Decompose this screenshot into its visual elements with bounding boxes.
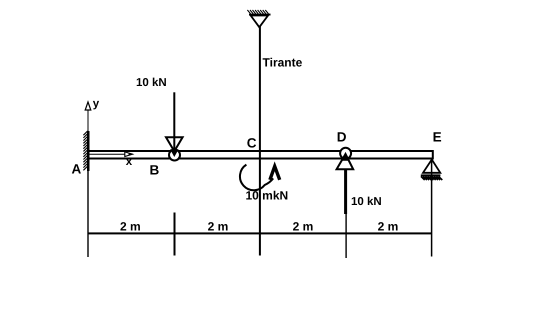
dimension line [88, 232, 432, 234]
svg-text:B: B [150, 162, 160, 177]
svg-text:Tirante: Tirante [263, 55, 303, 69]
svg-text:2 m: 2 m [208, 220, 229, 234]
roller support at E [421, 160, 443, 181]
tirante top anchor support [247, 10, 270, 27]
svg-text:E: E [433, 130, 442, 145]
projection tick under B [174, 213, 176, 256]
svg-text:y: y [93, 98, 100, 110]
svg-text:x: x [126, 156, 133, 168]
fixed support wall at A [83, 131, 89, 171]
svg-text:A: A [72, 162, 82, 177]
svg-text:D: D [337, 130, 347, 145]
svg-text:2 m: 2 m [293, 220, 314, 234]
projection tick under D [345, 214, 347, 258]
force 10 kN at D arrow [337, 153, 354, 214]
svg-text:2 m: 2 m [378, 220, 399, 234]
projection tick under A [87, 171, 89, 258]
force 10 kN at B arrow [166, 92, 183, 152]
svg-text:10 kN: 10 kN [351, 196, 382, 208]
x-axis arrow [89, 152, 133, 157]
projection tick under E [431, 160, 433, 257]
beam (double line A to E) [89, 150, 434, 160]
svg-text:10 kN: 10 kN [136, 77, 167, 89]
hinge circle D [340, 148, 351, 159]
svg-text:2 m: 2 m [120, 220, 141, 234]
moment 10 mkN arc at C [240, 165, 280, 191]
y-axis arrow [85, 102, 91, 132]
hinge circle B [169, 150, 180, 161]
svg-text:C: C [247, 136, 257, 151]
tirante rod at C [259, 26, 261, 256]
wedge of arrow inside hinge B [170, 149, 179, 157]
svg-text:10 mkN: 10 mkN [246, 189, 289, 203]
